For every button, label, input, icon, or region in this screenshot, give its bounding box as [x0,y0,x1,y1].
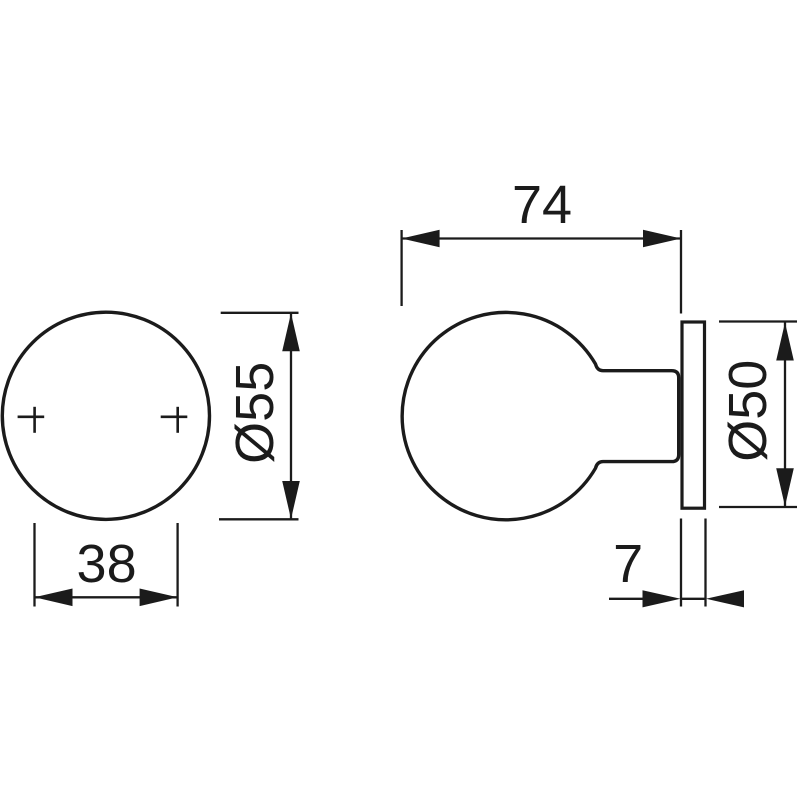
dimension Ø50 extension line bottom [719,506,797,508]
dimension Ø55 extension line bottom [219,518,299,520]
center mark right screw hole [161,407,188,433]
dimension 7 value label [613,534,643,594]
side view: rose plate rectangle [682,322,705,508]
dimension 7 extension line right [704,519,706,607]
dimension Ø55 arrowhead down [282,481,300,519]
dimension Ø50 extension line top [719,320,797,322]
dimension 38 arrowhead right [140,589,178,607]
dimension 74 dimension line [402,237,681,239]
dimension 7 left leader shaft [609,598,645,600]
svg-text:38: 38 [77,534,137,594]
dimension Ø50 value label [718,360,778,462]
dimension 74 extension line right [680,230,682,314]
svg-text:Ø50: Ø50 [718,360,778,462]
dimension Ø50 arrowhead up [776,323,794,361]
dimension Ø55 value label [225,362,285,464]
dimension Ø50 dimension line [784,323,786,507]
dimension 38 extension line right [176,523,178,607]
side view: knob ball and neck outline [402,312,679,519]
svg-text:74: 74 [512,175,572,235]
dimension 38 arrowhead left [35,589,73,607]
dimension Ø50 arrowhead down [776,468,794,506]
dimension Ø55 arrowhead up [282,313,300,351]
dimension Ø55 dimension line [290,313,292,519]
dimension 74 value label [512,175,572,235]
dimension 38 value label [77,534,137,594]
front view: rose outline circle Ø55 [2,312,209,519]
dimension 7 arrowhead left pointing right [643,590,681,607]
center mark left screw hole [18,407,45,433]
dimension 7 connecting line [681,598,706,600]
dimension 38 extension line left [33,523,35,607]
svg-text:Ø55: Ø55 [225,362,285,464]
svg-text:7: 7 [613,534,643,594]
dimension Ø55 extension line top [221,312,299,314]
dimension 74 arrowhead right [643,230,681,248]
dimension 7 arrowhead right pointing left [706,590,744,607]
dimension 74 arrowhead left [402,230,440,248]
dimension 38 dimension line [35,596,178,598]
dimension 7 extension line left [680,519,682,607]
dimension 74 extension line left [400,230,402,306]
